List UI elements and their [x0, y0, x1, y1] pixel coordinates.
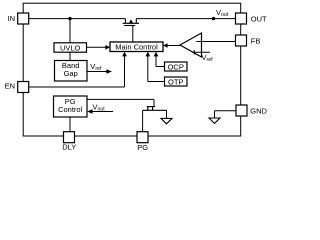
wire IN rail (IN pin to pass FET source): [29, 18, 126, 20]
svg-text:OUT: OUT: [251, 14, 267, 23]
wire junction to UVLO top: [69, 19, 71, 43]
wire OTP to Main Control with arrow: [145, 52, 164, 82]
node UVLO tap junction: [68, 17, 71, 20]
pin EN: [18, 82, 29, 93]
wire PG Control to DLY pin: [69, 117, 71, 132]
svg-text:PG: PG: [137, 143, 148, 152]
wire UVLO to Main Control with arrow: [87, 45, 111, 50]
svg-text:Gap: Gap: [64, 69, 78, 78]
wire Vref stub to non-inverting input (plus sign at left end): [192, 51, 210, 53]
block Band Gap: [55, 61, 88, 82]
svg-text:IN: IN: [8, 14, 16, 23]
pin FB: [236, 35, 247, 46]
wire UVLO to Band Gap: [69, 52, 71, 61]
pin PG: [137, 132, 148, 143]
wire PG FET drain to PG pin: [142, 110, 144, 132]
wire error amp output to Main Control with arrow: [163, 43, 180, 48]
block PG Control: [54, 96, 88, 117]
wire Vout input to PG Control with arrow: [87, 109, 113, 114]
pin OUT: [236, 13, 247, 24]
wire OUT rail (pass FET drain to OUT pin): [136, 18, 235, 20]
ground (GND pin): [209, 118, 220, 123]
wire PG Control output to PG FET gate: [87, 99, 154, 106]
block UVLO: [54, 43, 87, 53]
wire PG FET source to ground: [166, 110, 168, 118]
block OCP: [165, 62, 188, 72]
wire EN pin to Main Control with arrow: [29, 52, 127, 87]
pin IN: [18, 13, 29, 24]
svg-text:DLY: DLY: [62, 143, 76, 152]
svg-text:GND: GND: [250, 106, 267, 115]
svg-text:Main Control: Main Control: [115, 43, 158, 52]
transistor PG open-drain NMOS: [143, 107, 167, 111]
ground (PG FET): [161, 118, 172, 123]
IC boundary: [23, 3, 241, 136]
block OTP: [165, 77, 188, 87]
svg-text:UVLO: UVLO: [60, 43, 81, 52]
svg-text:FB: FB: [251, 36, 261, 45]
svg-text:Control: Control: [58, 105, 83, 114]
wire OCP to Main Control with arrow: [154, 52, 165, 67]
pin GND: [236, 105, 247, 116]
transistor pass PMOS: [123, 19, 140, 26]
node Vout junction: [212, 17, 215, 20]
pin DLY: [64, 132, 75, 143]
svg-text:OCP: OCP: [168, 63, 184, 72]
wire FB pin to error amp inverting input (minus dash inside): [196, 41, 235, 43]
block Main Control: [110, 42, 163, 52]
op-amp error amplifier: [180, 33, 202, 57]
svg-text:OTP: OTP: [168, 78, 183, 87]
wire pass FET gate to Main Control: [132, 26, 134, 43]
svg-text:EN: EN: [5, 81, 15, 90]
wire GND pin to ground symbol: [215, 111, 237, 118]
wire Band Gap Vref output with arrow: [87, 69, 112, 74]
